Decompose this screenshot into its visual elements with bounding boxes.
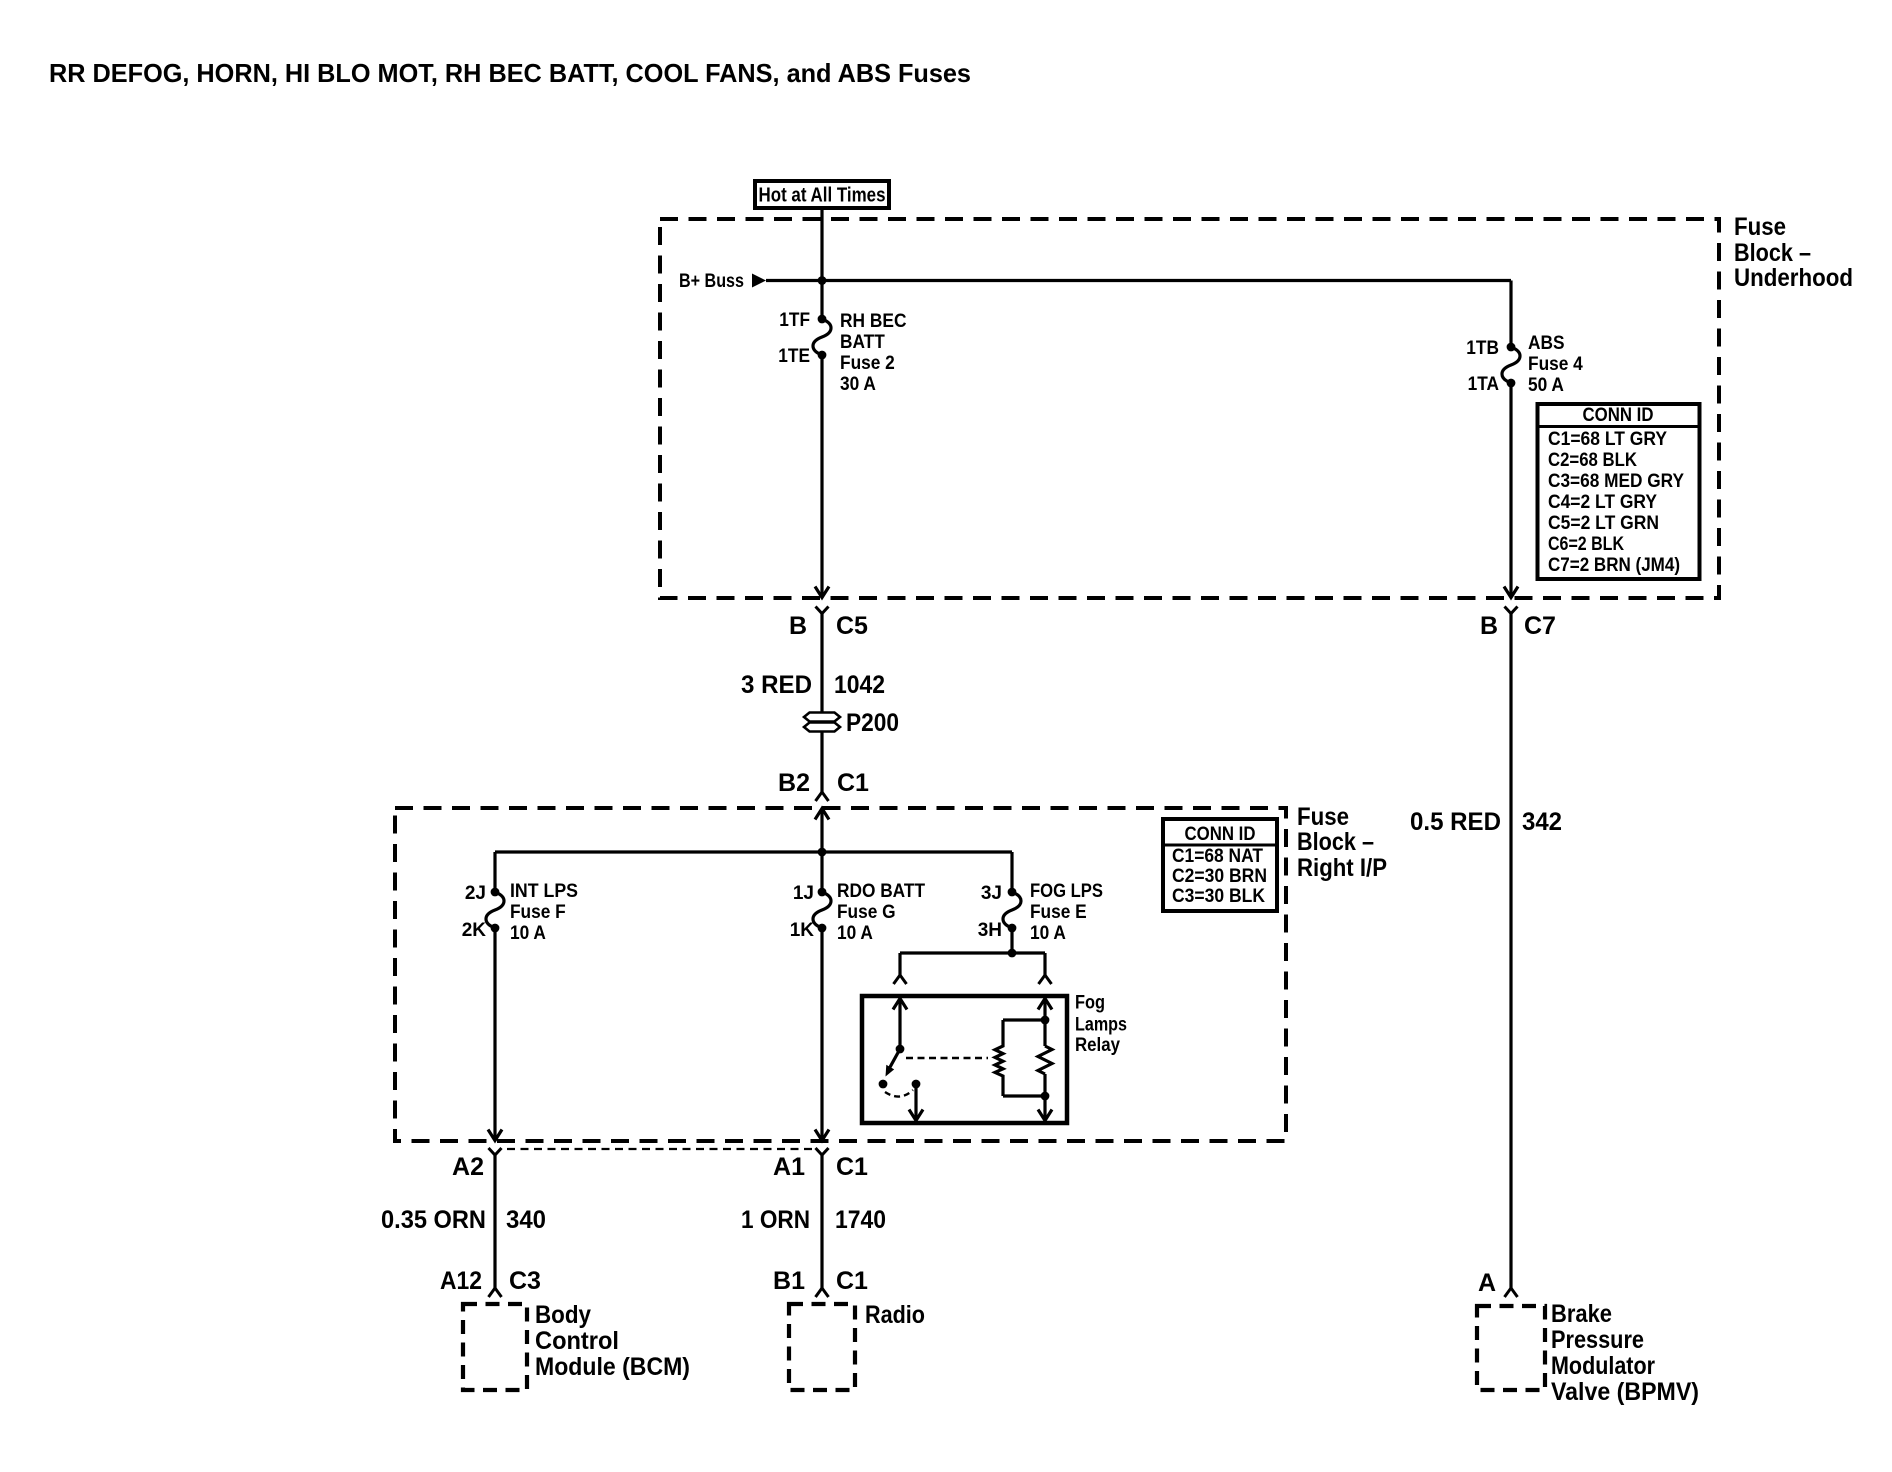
svg-text:1J: 1J	[793, 883, 814, 904]
svg-text:C5: C5	[836, 612, 868, 640]
svg-text:0.5 RED: 0.5 RED	[1410, 808, 1501, 836]
connector A1 C1	[773, 1148, 868, 1181]
svg-text:1TE: 1TE	[778, 346, 810, 367]
svg-text:Block –: Block –	[1297, 828, 1374, 856]
svg-text:2K: 2K	[462, 920, 487, 941]
relay K? Fog Lamps Relay box	[862, 996, 1067, 1123]
wire from Hot at All Times to fuse 2	[820, 208, 823, 319]
fuse F INT LPS 10A	[486, 888, 504, 933]
svg-text:3J: 3J	[981, 883, 1002, 904]
svg-text:3H: 3H	[978, 920, 1002, 941]
connector B C7	[1480, 607, 1556, 641]
wire drop to relay coil pin with connector	[1039, 953, 1052, 984]
svg-text:C1: C1	[836, 1267, 868, 1295]
svg-text:Valve (BPMV): Valve (BPMV)	[1551, 1378, 1699, 1406]
svg-text:C1: C1	[837, 769, 869, 797]
relay suppression resistor	[1038, 1046, 1052, 1074]
svg-text:Fuse 2: Fuse 2	[840, 353, 895, 374]
wire label 0.5 RED 342	[1410, 808, 1562, 836]
relay switch arm	[886, 1049, 901, 1077]
relay resistor output wire with down arrow	[1038, 1074, 1052, 1121]
component Radio dashed box	[789, 1304, 855, 1390]
value label FOG LPS Fuse E 10 A	[1030, 881, 1103, 944]
label Fuse Block - Right I/P	[1297, 803, 1387, 882]
svg-text:C3: C3	[509, 1267, 541, 1295]
svg-text:Brake: Brake	[1551, 1300, 1612, 1328]
wire 1 ORN 1740	[820, 1155, 823, 1288]
svg-text:B2: B2	[778, 769, 810, 797]
relay switch common pin with up arrow	[893, 999, 907, 1050]
wire coil bottom link	[1003, 1094, 1045, 1097]
wire drop to relay switch pin with connector	[894, 953, 907, 984]
label Fuse Block - Underhood	[1734, 213, 1853, 292]
svg-text:Radio: Radio	[865, 1301, 925, 1329]
svg-text:C1: C1	[836, 1153, 868, 1181]
svg-text:Fuse F: Fuse F	[510, 902, 566, 923]
wire label 0.35 ORN 340	[381, 1206, 546, 1234]
junction inside IP box	[818, 848, 827, 857]
connector tie dashed line	[507, 1148, 814, 1150]
svg-text:Fuse 4: Fuse 4	[1528, 354, 1583, 375]
svg-text:Fog: Fog	[1075, 993, 1105, 1014]
svg-text:50 A: 50 A	[1528, 375, 1564, 396]
wire coil top link	[1003, 1018, 1045, 1021]
svg-text:A12: A12	[440, 1267, 482, 1295]
svg-text:ABS: ABS	[1528, 333, 1565, 354]
svg-text:1TA: 1TA	[1468, 374, 1500, 395]
wire B+ buss horizontal	[766, 279, 1511, 282]
svg-text:RR DEFOG, HORN, HI BLO MOT, RH: RR DEFOG, HORN, HI BLO MOT, RH BEC BATT,…	[49, 58, 971, 88]
svg-text:Fuse G: Fuse G	[837, 902, 896, 923]
svg-text:B: B	[1480, 612, 1498, 640]
svg-text:B1: B1	[773, 1267, 805, 1295]
svg-text:B+ Buss: B+ Buss	[679, 271, 744, 292]
splice P200	[804, 709, 899, 737]
relay switch pivot	[896, 1045, 905, 1054]
svg-text:C1=68 NAT: C1=68 NAT	[1172, 846, 1263, 867]
svg-text:C3=68 MED GRY: C3=68 MED GRY	[1548, 471, 1684, 492]
svg-text:1K: 1K	[790, 920, 815, 941]
svg-text:A: A	[1478, 1269, 1496, 1297]
svg-text:3 RED: 3 RED	[741, 671, 812, 699]
svg-text:C7: C7	[1524, 612, 1556, 640]
svg-text:1 ORN: 1 ORN	[741, 1206, 810, 1234]
svg-text:CONN ID: CONN ID	[1583, 405, 1654, 426]
wire fuse E down to relay split	[1010, 928, 1013, 953]
fuse block underhood dashed box	[660, 219, 1719, 598]
wire horizontal bus inside IP box	[495, 850, 1012, 853]
svg-text:C7=2 BRN (JM4): C7=2 BRN (JM4)	[1548, 555, 1680, 576]
wire fuse F to IP box edge with arrow	[488, 928, 502, 1141]
svg-text:Lamps: Lamps	[1075, 1015, 1127, 1036]
fuse E FOG LPS 10A	[1003, 888, 1021, 933]
svg-text:0.35 ORN: 0.35 ORN	[381, 1206, 486, 1234]
svg-text:30 A: 30 A	[840, 374, 876, 395]
junction B+ buss / fuse 2	[818, 276, 827, 285]
svg-text:C4=2 LT GRY: C4=2 LT GRY	[1548, 492, 1657, 513]
svg-text:Control: Control	[535, 1327, 619, 1355]
wire down to fuse E	[1010, 852, 1013, 892]
svg-text:Body: Body	[535, 1301, 591, 1329]
relay switch output wire with down arrow	[909, 1084, 923, 1121]
fuse F4 ABS 50A	[1502, 343, 1520, 388]
svg-text:Right I/P: Right I/P	[1297, 854, 1387, 882]
label Brake Pressure Modulator Valve (BPMV)	[1551, 1300, 1699, 1406]
svg-text:10 A: 10 A	[510, 923, 546, 944]
wire fuse G to IP box edge with arrow	[815, 928, 829, 1141]
svg-text:INT LPS: INT LPS	[510, 881, 578, 902]
svg-text:A1: A1	[773, 1153, 805, 1181]
wire 3 RED 1042	[820, 614, 823, 793]
svg-text:1042: 1042	[834, 671, 885, 699]
connector B2 C1	[778, 769, 869, 801]
wire fuse 2 to underhood box edge with arrow	[815, 355, 829, 598]
value label ABS Fuse 4 50 A	[1528, 333, 1583, 396]
relay contact travel dashed arc	[885, 1090, 913, 1097]
junction coil bottom	[1041, 1092, 1050, 1101]
svg-text:C2=30 BRN: C2=30 BRN	[1172, 866, 1267, 887]
component U? Body Control Module dashed box	[463, 1304, 527, 1390]
wire entering IP box with up arrow	[815, 809, 829, 853]
value label RH BEC BATT Fuse 2 30 A	[840, 311, 907, 395]
svg-text:Fuse E: Fuse E	[1030, 902, 1087, 923]
component Brake Pressure Modulator Valve dashed box	[1477, 1306, 1545, 1390]
svg-text:C2=68 BLK: C2=68 BLK	[1548, 450, 1637, 471]
wire 0.5 RED 342	[1509, 614, 1512, 1289]
svg-text:C3=30 BLK: C3=30 BLK	[1172, 886, 1265, 907]
svg-text:Fuse: Fuse	[1734, 213, 1786, 241]
CONN ID table underhood	[1538, 404, 1700, 579]
svg-text:C5=2 LT GRN: C5=2 LT GRN	[1548, 513, 1659, 534]
wire ABS fuse to underhood box edge with arrow	[1504, 383, 1518, 598]
svg-text:Hot at All Times: Hot at All Times	[759, 185, 886, 207]
svg-text:10 A: 10 A	[1030, 923, 1066, 944]
relay contact open side	[879, 1080, 888, 1089]
connector B1 C1	[773, 1267, 868, 1297]
node B+ Buss	[679, 271, 766, 292]
connector A at BPMV	[1478, 1269, 1518, 1297]
svg-text:RH BEC: RH BEC	[840, 311, 907, 332]
svg-text:Module (BCM): Module (BCM)	[535, 1353, 690, 1381]
svg-text:340: 340	[506, 1206, 546, 1234]
svg-text:FOG LPS: FOG LPS	[1030, 881, 1103, 902]
svg-text:Relay: Relay	[1075, 1035, 1120, 1056]
relay contact output side	[912, 1080, 921, 1089]
svg-text:CONN ID: CONN ID	[1185, 824, 1256, 845]
junction relay feed	[1008, 949, 1017, 958]
wire relay feed horizontal	[900, 951, 1045, 954]
svg-text:Modulator: Modulator	[1551, 1352, 1655, 1380]
wire 0.35 ORN 340	[493, 1155, 496, 1288]
svg-text:Pressure: Pressure	[1551, 1326, 1644, 1354]
fuse block right IP dashed box	[395, 808, 1286, 1141]
value label INT LPS Fuse F 10 A	[510, 881, 578, 944]
wire drop to ABS fuse	[1509, 281, 1512, 348]
wire down to fuse F	[493, 852, 496, 892]
power source label Hot at All Times	[755, 181, 889, 208]
svg-text:1TF: 1TF	[779, 310, 810, 331]
label Fog Lamps Relay	[1075, 993, 1127, 1057]
junction coil top	[1041, 1016, 1050, 1025]
relay coil feed pin with up arrow	[1038, 999, 1052, 1047]
wire down to fuse G	[820, 852, 823, 892]
svg-text:RDO BATT: RDO BATT	[837, 881, 925, 902]
value label RDO BATT Fuse G 10 A	[837, 881, 925, 944]
fuse F2 RH BEC BATT 30A	[813, 315, 831, 360]
svg-text:A2: A2	[452, 1153, 484, 1181]
relay coil	[995, 1020, 1003, 1096]
wire label 3 RED 1042	[741, 671, 885, 699]
svg-text:Underhood: Underhood	[1734, 264, 1853, 292]
connector A12 C3	[440, 1267, 541, 1297]
svg-text:1740: 1740	[835, 1206, 886, 1234]
CONN ID table right IP	[1163, 819, 1277, 911]
connector B C5	[789, 607, 868, 641]
svg-text:342: 342	[1522, 808, 1562, 836]
svg-text:BATT: BATT	[840, 332, 885, 353]
svg-text:Block –: Block –	[1734, 239, 1811, 267]
wire label 1 ORN 1740	[741, 1206, 886, 1234]
svg-text:Fuse: Fuse	[1297, 803, 1349, 831]
label Body Control Module (BCM)	[535, 1301, 690, 1381]
svg-text:10 A: 10 A	[837, 923, 873, 944]
svg-text:C6=2 BLK: C6=2 BLK	[1548, 534, 1624, 555]
svg-text:P200: P200	[846, 709, 899, 737]
svg-text:C1=68 LT GRY: C1=68 LT GRY	[1548, 429, 1667, 450]
svg-text:1TB: 1TB	[1466, 338, 1499, 359]
connector A2	[452, 1148, 501, 1181]
svg-text:B: B	[789, 612, 807, 640]
svg-text:2J: 2J	[465, 883, 486, 904]
relay actuation dashed link	[906, 1057, 988, 1059]
fuse G RDO BATT 10A	[813, 888, 831, 933]
